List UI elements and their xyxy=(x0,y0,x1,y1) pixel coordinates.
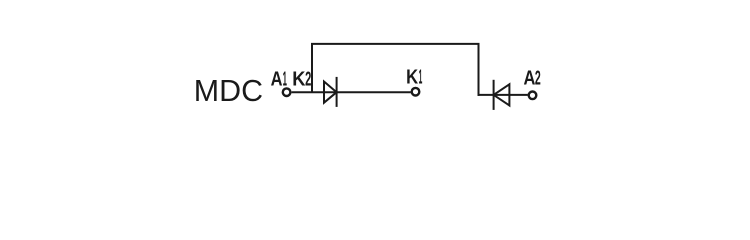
diode D2 triangle xyxy=(494,84,510,105)
diode D1 triangle xyxy=(324,82,337,103)
svg-text:2: 2 xyxy=(535,67,541,89)
wire top horizontal xyxy=(311,43,480,45)
wire A1K2 to K1 xyxy=(292,91,411,93)
svg-text:K: K xyxy=(406,67,418,89)
wire right vertical xyxy=(478,44,480,96)
wire junction vertical xyxy=(311,44,313,92)
diode D1 cathode bar xyxy=(336,77,338,107)
svg-text:K: K xyxy=(292,68,306,90)
svg-text:A: A xyxy=(524,67,536,89)
svg-text:MDC: MDC xyxy=(194,73,263,108)
svg-text:1: 1 xyxy=(283,68,287,90)
terminal A2 xyxy=(529,92,537,100)
svg-text:1: 1 xyxy=(419,67,423,89)
wire to A2 xyxy=(478,94,528,96)
diode D2 cathode bar xyxy=(493,80,495,110)
terminal A1K2 xyxy=(283,88,291,96)
svg-text:2: 2 xyxy=(305,68,311,90)
terminal K1 xyxy=(412,88,420,96)
svg-text:A: A xyxy=(271,68,283,90)
